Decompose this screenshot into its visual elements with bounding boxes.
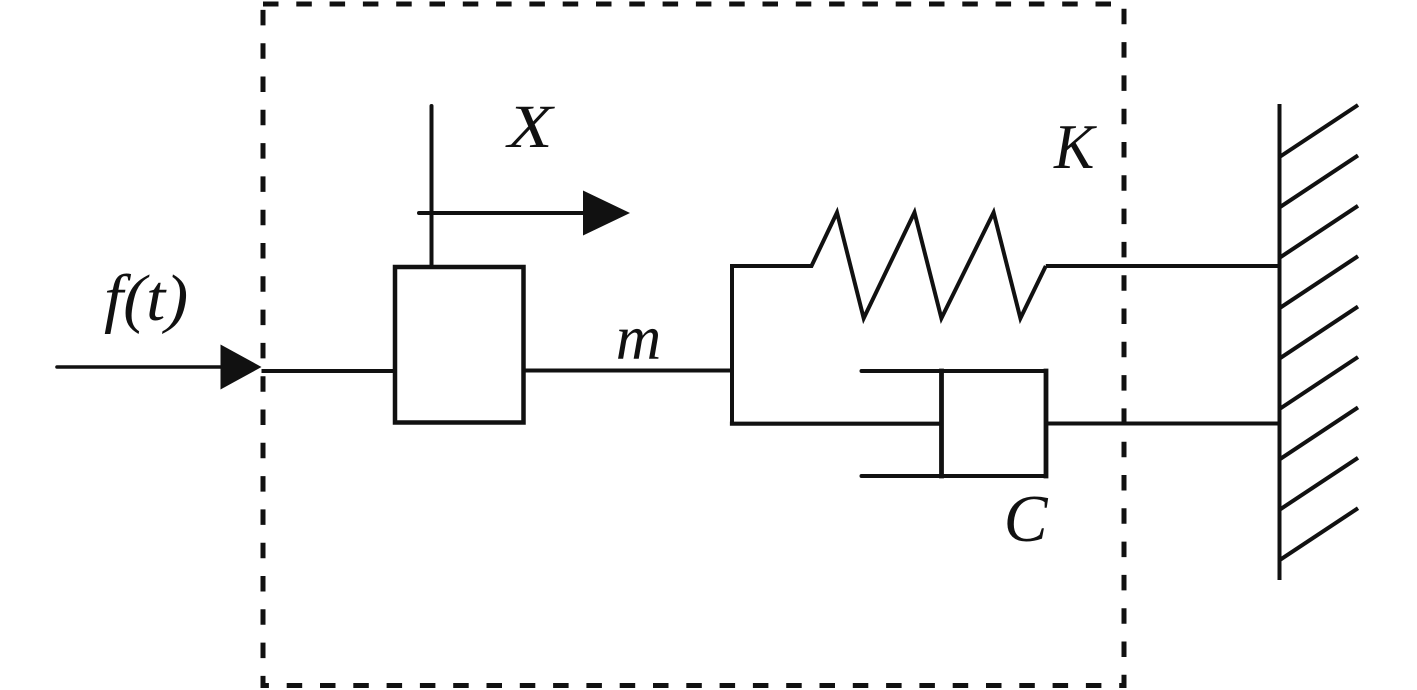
spring K [732, 213, 1046, 319]
branch junction vertical [730, 266, 734, 424]
svg-text:f(t): f(t) [104, 262, 188, 335]
wire: spring to wall [1046, 264, 1280, 268]
wall hatch 5 [1280, 307, 1359, 359]
wall hatch 7 [1280, 407, 1359, 459]
wall hatch 9 [1280, 508, 1359, 560]
wall hatch 6 [1280, 357, 1359, 409]
svg-text:X: X [504, 94, 556, 161]
wire: input force line [57, 365, 221, 369]
damper cylinder bottom wall [862, 474, 1047, 478]
wire: arrow tip to mass [262, 369, 396, 373]
damper rod [732, 422, 941, 426]
input force arrowhead [221, 345, 262, 390]
damper cylinder right wall [1044, 371, 1049, 476]
damper cylinder top wall [862, 369, 1047, 373]
dashed system boundary box [263, 4, 1124, 686]
displacement reference vertical line [430, 106, 434, 267]
wire: damper to wall [1046, 422, 1280, 426]
svg-text:C: C [1004, 482, 1049, 556]
wire: mass to branch junction [524, 369, 733, 373]
wall hatch 1 [1280, 105, 1359, 157]
displacement arrow X [419, 211, 585, 215]
damper piston plate [939, 371, 944, 476]
svg-text:m: m [616, 303, 662, 373]
mass block m [395, 267, 524, 423]
wall hatch 2 [1280, 155, 1359, 207]
wall hatch 4 [1280, 256, 1359, 308]
svg-text:K: K [1053, 112, 1097, 182]
fixed wall vertical [1278, 106, 1282, 578]
displacement arrowhead [583, 191, 630, 236]
wall hatch 8 [1280, 458, 1359, 510]
wall hatch 3 [1280, 206, 1359, 258]
